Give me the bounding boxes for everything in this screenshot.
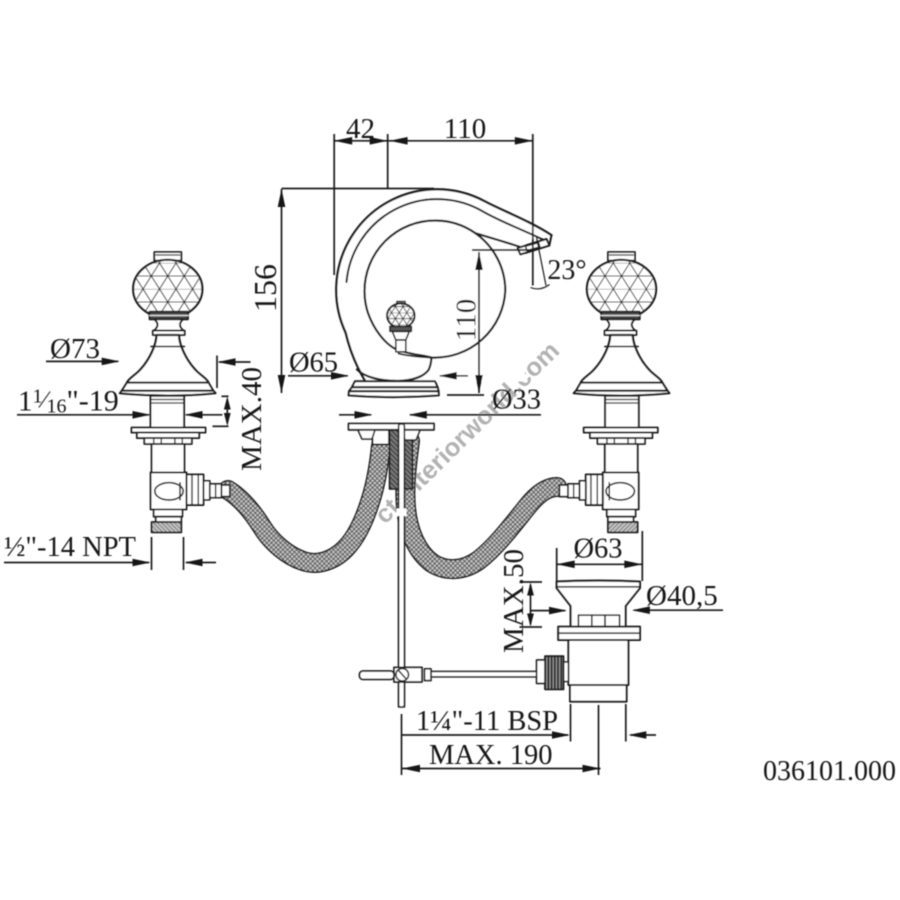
coupling ring and knurled nut on left [564, 662, 569, 682]
scoop second lip line [399, 354, 432, 358]
mounting washer under center faucet [349, 424, 435, 430]
svg-text:Ø40,5: Ø40,5 [646, 580, 718, 612]
neck [154, 319, 184, 330]
dimension D40,5 (drain throat diameter) [531, 580, 723, 614]
spout outer contour [336, 189, 551, 381]
right hose (braided flexible connector, center to right valve) [405, 441, 557, 569]
dimension 42 (top, spout overhang to axis) [334, 113, 389, 275]
ball collar and stem [390, 326, 412, 331]
dimension MAX.50 (drain clamping range) [498, 549, 542, 653]
dark collar under ball [150, 312, 189, 320]
dimension 1-1/4"-11 BSP (drain tail thread) [402, 704, 656, 742]
dimension D33 (spout shank diameter) [339, 385, 541, 419]
svg-text:Ø65: Ø65 [289, 348, 338, 379]
angle 23 degrees (outlet inclination) [531, 236, 587, 289]
tail pipe [570, 685, 627, 702]
dimension D73 (handle base diameter) [46, 333, 251, 388]
slots in throat [578, 614, 619, 616]
valve body lower [151, 472, 187, 509]
pop-up lift rod [397, 424, 407, 707]
spout lower edge to outlet [475, 233, 530, 250]
crystal ball [133, 260, 202, 318]
dimension 156 (spout height) [247, 189, 434, 394]
top cap [154, 252, 181, 261]
threaded stem [151, 396, 185, 428]
svg-text:42: 42 [346, 113, 375, 145]
valve body upper [152, 444, 185, 472]
drain body [568, 640, 628, 685]
scoop bottom edge [357, 358, 431, 382]
small crystal ball handle on spout [397, 302, 405, 306]
clamp block with screw [394, 667, 422, 682]
svg-text:MAX.40: MAX.40 [236, 367, 268, 471]
svg-text:Ø33: Ø33 [492, 385, 541, 416]
dimension 110 (outlet height above deck) [447, 250, 535, 395]
washer wings [358, 430, 375, 439]
svg-text:036101.000: 036101.000 [763, 756, 896, 787]
lever bar left of clamp [360, 671, 395, 679]
svg-text:23°: 23° [547, 255, 586, 286]
dimension 110 (top, axis to outlet) [390, 113, 533, 286]
svg-text:MAX.50: MAX.50 [498, 549, 530, 653]
left supply stub [373, 430, 390, 445]
svg-text:1¼"-11 BSP: 1¼"-11 BSP [416, 706, 558, 737]
aerator at spout tip (23 deg) [518, 239, 550, 255]
threaded shank below deck (hatched) [390, 430, 413, 489]
dimension D63 (drain funnel diameter) [557, 531, 643, 581]
spout inner contour (C opening) with scoop lip [364, 221, 505, 358]
svg-text:Ø73: Ø73 [50, 333, 100, 365]
C-shaped spout body (white silhouette) [336, 189, 551, 381]
accent contour line inside spout [347, 199, 543, 282]
bell rim rings [122, 383, 214, 391]
horizontal pop-up linkage rod [431, 671, 537, 676]
dimension D65 (spout base diameter) [288, 348, 468, 380]
dimension 1-1/16"-19 (handle stem thread) [17, 385, 222, 419]
escutcheon washer plates [132, 428, 206, 433]
dimension MAX.190 (rod to drain reach) [402, 705, 601, 775]
funnel top [557, 581, 640, 627]
dimension MAX.40 (deck thickness, left) [213, 367, 269, 471]
svg-text:Ø63: Ø63 [573, 534, 622, 565]
left hose (braided flexible connector, center to left valve) [228, 446, 381, 563]
svg-text:110: 110 [444, 113, 486, 145]
lock nut [144, 438, 192, 444]
bell body [127, 335, 209, 383]
svg-text:156: 156 [247, 264, 283, 312]
svg-text:110: 110 [451, 299, 483, 341]
dimension 1/2"-14 NPT (valve inlet thread) [4, 532, 216, 570]
drain flange [558, 627, 640, 640]
svg-text:½"-14 NPT: ½"-14 NPT [4, 532, 136, 563]
pedestal base of faucet [352, 381, 438, 387]
hose adapter hex [187, 474, 204, 505]
svg-text:MAX. 190: MAX. 190 [429, 740, 553, 771]
second collar [153, 331, 185, 335]
bottom step, nut, threaded tip [154, 509, 183, 516]
